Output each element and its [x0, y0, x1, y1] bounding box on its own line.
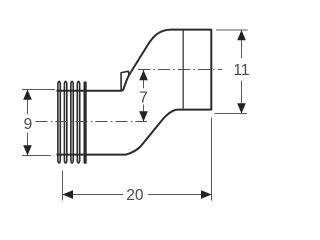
dim 20: extension line right — [211, 118, 213, 201]
dim 20: extension line left — [62, 171, 64, 201]
gasket end ring (thick bar) — [84, 81, 87, 163]
dim 11: dimension line — [241, 30, 243, 114]
dim 7: arrow down — [139, 111, 148, 121]
svg-text:7: 7 — [139, 89, 148, 106]
socket inner line — [182, 31, 184, 109]
svg-text:9: 9 — [24, 116, 33, 133]
dim 9: arrow down — [23, 145, 32, 155]
dim 9: extension line top — [22, 89, 55, 91]
gasket fin 2 — [64, 81, 66, 163]
gasket fin 3 — [71, 81, 73, 163]
tab on bend — [121, 71, 129, 90]
lower centerline — [36, 121, 148, 123]
dim 20: arrow right — [201, 190, 212, 199]
dim 11: arrow up — [237, 30, 246, 40]
dim 9: extension line bottom — [22, 155, 51, 157]
svg-text:11: 11 — [233, 62, 249, 79]
dim 9: arrow up — [23, 90, 32, 100]
dim 20: dimension line — [63, 194, 212, 196]
dim 9: dimension line — [27, 90, 29, 156]
dim 7: arrow up — [139, 70, 148, 80]
dim 7: dimension line — [143, 70, 145, 122]
dim 20: arrow left — [63, 190, 74, 199]
dim 11: extension line top — [216, 29, 248, 31]
dim 11: extension line bottom — [215, 113, 247, 115]
gasket fin 1 — [58, 81, 60, 163]
svg-text:20: 20 — [126, 187, 144, 204]
upper centerline — [138, 69, 222, 71]
body outline of offset connector — [57, 30, 212, 155]
gasket fin 4 — [77, 81, 79, 163]
dim 11: arrow down — [237, 103, 246, 113]
